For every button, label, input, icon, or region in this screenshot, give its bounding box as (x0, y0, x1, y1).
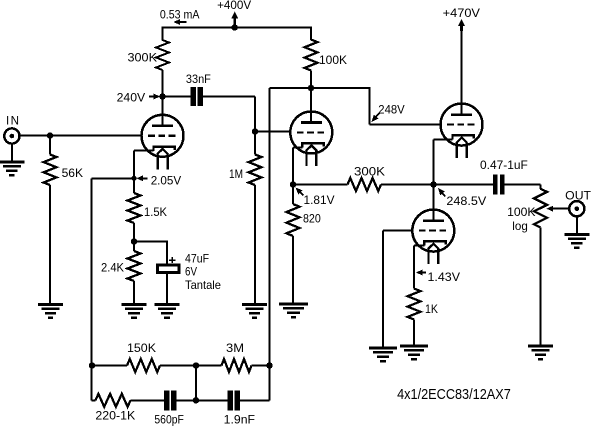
svg-text:150K: 150K (127, 341, 156, 355)
svg-text:6V: 6V (185, 265, 197, 279)
svg-text:+470V: +470V (443, 6, 480, 20)
svg-text:0.47-1uF: 0.47-1uF (480, 158, 528, 172)
svg-text:100K: 100K (319, 53, 347, 67)
svg-text:IN: IN (6, 114, 21, 128)
svg-text:47uF: 47uF (185, 252, 209, 266)
svg-text:1.43V: 1.43V (428, 270, 461, 284)
svg-text:248.5V: 248.5V (446, 194, 486, 208)
svg-text:2.4K: 2.4K (101, 261, 124, 275)
svg-text:1M: 1M (229, 167, 243, 181)
svg-text:220-1K: 220-1K (95, 408, 135, 422)
svg-text:log: log (512, 219, 528, 233)
svg-text:3M: 3M (226, 341, 244, 355)
svg-text:560pF: 560pF (154, 413, 184, 426)
svg-text:1K: 1K (425, 302, 438, 316)
svg-text:Tantale: Tantale (185, 278, 221, 292)
svg-text:300K: 300K (128, 51, 158, 65)
svg-text:240V: 240V (117, 91, 146, 105)
svg-text:2.05V: 2.05V (151, 173, 182, 187)
svg-text:300K: 300K (354, 164, 385, 178)
svg-text:1.9nF: 1.9nF (224, 413, 255, 426)
svg-text:100K: 100K (507, 205, 535, 219)
svg-text:820: 820 (303, 212, 321, 226)
svg-text:248V: 248V (378, 102, 404, 116)
svg-text:OUT: OUT (565, 188, 591, 202)
svg-text:0.53 mA: 0.53 mA (160, 8, 200, 22)
svg-text:+400V: +400V (217, 0, 251, 12)
svg-text:1.81V: 1.81V (304, 193, 335, 207)
svg-text:1.5K: 1.5K (144, 205, 167, 219)
svg-text:33nF: 33nF (186, 72, 211, 86)
svg-text:4x1/2ECC83/12AX7: 4x1/2ECC83/12AX7 (397, 386, 511, 403)
svg-text:56K: 56K (62, 166, 84, 180)
